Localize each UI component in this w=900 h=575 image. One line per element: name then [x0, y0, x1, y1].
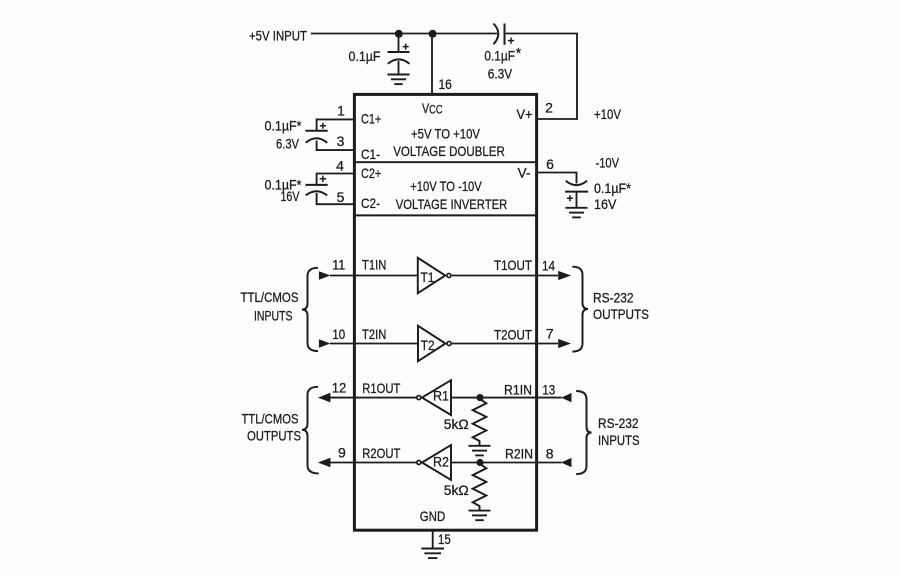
buffer T2 [418, 326, 446, 361]
svg-text:RS-232: RS-232 [593, 290, 634, 306]
svg-text:16: 16 [439, 76, 452, 92]
junction dot R2IN [476, 459, 483, 466]
capacitor C4 0.1uF* 16V on V- [538, 173, 588, 208]
wire R1OUT [330, 397, 416, 399]
svg-text:+5V TO +10V: +5V TO +10V [411, 125, 481, 141]
input arrow T2IN [319, 339, 330, 348]
IC box U1 [354, 94, 536, 530]
svg-text:6.3V: 6.3V [488, 66, 513, 82]
svg-text:15: 15 [438, 531, 451, 547]
svg-text:T1: T1 [421, 269, 435, 285]
svg-text:RS-232: RS-232 [598, 415, 639, 431]
svg-text:0.1µF: 0.1µF [349, 48, 381, 64]
capacitor C2 0.1uF* 16V [305, 174, 353, 205]
svg-text:V+: V+ [517, 106, 533, 122]
svg-text:T2IN: T2IN [362, 326, 386, 342]
svg-text:VOLTAGE INVERTER: VOLTAGE INVERTER [396, 196, 508, 212]
wire T2IN [330, 343, 418, 345]
svg-text:VOLTAGE DOUBLER: VOLTAGE DOUBLER [393, 143, 505, 159]
svg-text:GND: GND [420, 508, 446, 524]
svg-text:R2IN: R2IN [505, 445, 533, 461]
capacitor C1 0.1uF* 6.3V [305, 119, 353, 150]
svg-text:VCC: VCC [422, 100, 443, 117]
svg-text:INPUTS: INPUTS [598, 432, 640, 448]
svg-text:0.1µF: 0.1µF [484, 47, 515, 63]
wire Vcc stub pin16 [431, 34, 433, 94]
resistor 5k R2 [473, 463, 487, 510]
svg-text:2: 2 [545, 100, 553, 116]
wire R2IN [451, 462, 562, 464]
svg-text:-10V: -10V [596, 155, 620, 171]
wire R1IN [451, 397, 562, 399]
svg-text:*: * [516, 44, 522, 60]
svg-text:6.3V: 6.3V [276, 135, 300, 151]
svg-text:5: 5 [337, 189, 345, 205]
svg-text:13: 13 [542, 382, 555, 398]
svg-text:10: 10 [332, 326, 345, 342]
svg-text:R1OUT: R1OUT [362, 380, 400, 396]
capacitor C5 bypass 0.1uF [388, 34, 410, 75]
output arrow R1OUT [318, 393, 331, 403]
svg-text:V-: V- [518, 165, 531, 181]
svg-text:12: 12 [332, 379, 347, 395]
buffer R2 [422, 445, 451, 480]
output arrow R2OUT [318, 458, 331, 468]
svg-text:+5V INPUT: +5V INPUT [249, 28, 307, 44]
section separator 2 [353, 214, 538, 216]
svg-text:+10V TO -10V: +10V TO -10V [410, 178, 482, 194]
ground for C4 [566, 208, 588, 218]
junction dot R1IN [476, 394, 483, 401]
wire V+ to series cap [505, 34, 577, 120]
svg-text:11: 11 [332, 256, 345, 272]
svg-text:1: 1 [337, 103, 345, 119]
inverter bubble R1 [417, 396, 421, 400]
brace left TTL/CMOS outputs [302, 387, 319, 474]
buffer R1 [422, 380, 451, 415]
svg-text:0.1µF*: 0.1µF* [594, 180, 631, 196]
wire R2OUT [330, 462, 416, 464]
svg-text:14: 14 [542, 258, 555, 274]
brace right RS-232 outputs [572, 267, 588, 352]
input arrow T1IN [319, 271, 330, 280]
output arrow T2OUT [558, 339, 571, 348]
svg-text:INPUTS: INPUTS [254, 308, 293, 324]
svg-text:TTL/CMOS: TTL/CMOS [241, 289, 299, 305]
svg-text:T1OUT: T1OUT [494, 257, 532, 273]
brace right RS-232 inputs [576, 391, 591, 474]
wire T1OUT [452, 275, 558, 277]
svg-text:+10V: +10V [594, 106, 622, 122]
svg-text:T2: T2 [421, 337, 435, 353]
svg-text:4: 4 [336, 158, 344, 174]
ground for R1 resistor [469, 446, 491, 456]
svg-text:C2-: C2- [361, 195, 380, 211]
wire +5V input rail [311, 33, 497, 35]
ground for pin15 [421, 549, 444, 559]
input arrow R1IN [561, 393, 572, 402]
svg-text:R2: R2 [433, 454, 449, 470]
svg-text:C1-: C1- [361, 146, 380, 162]
svg-text:3: 3 [337, 133, 345, 149]
ground for C5 [388, 75, 410, 85]
svg-text:5kΩ: 5kΩ [444, 482, 469, 498]
svg-text:OUTPUTS: OUTPUTS [247, 428, 301, 444]
inverter bubble T2 [447, 341, 451, 345]
svg-text:T1IN: T1IN [362, 257, 386, 273]
svg-text:OUTPUTS: OUTPUTS [593, 306, 649, 322]
section separator 1 [353, 161, 538, 163]
output arrow T1OUT [558, 271, 571, 280]
ground for R2 resistor [469, 511, 491, 521]
inverter bubble R2 [417, 460, 421, 464]
svg-text:R2OUT: R2OUT [362, 445, 400, 461]
svg-text:8: 8 [546, 446, 554, 462]
input arrow R2IN [561, 458, 572, 467]
svg-text:9: 9 [338, 445, 346, 461]
buffer T1 [418, 258, 446, 293]
svg-text:R1IN: R1IN [504, 381, 532, 397]
svg-text:TTL/CMOS: TTL/CMOS [242, 410, 299, 426]
svg-text:T2OUT: T2OUT [494, 326, 532, 342]
capacitor C3 series 0.1uF 6.3V [494, 24, 515, 45]
svg-text:5kΩ: 5kΩ [444, 416, 469, 432]
svg-text:C1+: C1+ [361, 111, 381, 127]
brace left TTL/CMOS inputs [302, 268, 318, 351]
resistor 5k R1 [473, 399, 487, 446]
wire T2OUT [452, 343, 558, 345]
wire GND pin15 [432, 531, 434, 549]
svg-text:0.1µF*: 0.1µF* [265, 118, 302, 134]
svg-text:6: 6 [546, 156, 554, 172]
svg-text:16V: 16V [594, 196, 617, 212]
junction dot A [395, 30, 403, 38]
svg-text:16V: 16V [281, 188, 300, 204]
inverter bubble T1 [447, 273, 451, 277]
junction dot B [429, 30, 437, 38]
svg-text:R1: R1 [433, 387, 449, 403]
svg-text:C2+: C2+ [361, 165, 381, 181]
svg-text:7: 7 [546, 326, 554, 342]
wire T1IN [330, 275, 417, 277]
